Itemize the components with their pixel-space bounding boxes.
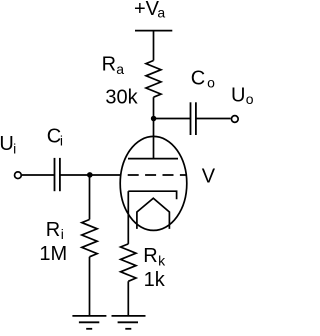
ground (cathode side) bbox=[112, 316, 146, 329]
svg-text:R: R bbox=[102, 54, 116, 76]
ground (input side) bbox=[72, 316, 106, 329]
node anode junction bbox=[151, 116, 157, 122]
wire Co to output terminal bbox=[196, 118, 231, 120]
label Ra bbox=[102, 54, 125, 77]
svg-text:o: o bbox=[207, 74, 215, 90]
grid (dashed) bbox=[128, 174, 187, 176]
svg-text:C: C bbox=[191, 67, 205, 89]
svg-text:o: o bbox=[246, 91, 253, 107]
svg-text:i: i bbox=[60, 133, 63, 149]
svg-text:k: k bbox=[158, 252, 166, 268]
wire supply bar to Ra bbox=[153, 31, 155, 61]
wire node to tube grid bbox=[90, 174, 122, 176]
cathode lead to Rk bbox=[127, 191, 129, 244]
svg-text:V: V bbox=[202, 165, 216, 187]
resistor Rk bbox=[121, 244, 136, 281]
label Ui bbox=[0, 133, 16, 156]
triode envelope V bbox=[120, 136, 187, 230]
wire node down to Ri bbox=[89, 175, 91, 220]
label Ci bbox=[47, 126, 63, 149]
svg-text:1k: 1k bbox=[144, 269, 166, 291]
svg-text:30k: 30k bbox=[105, 86, 138, 108]
label Uo bbox=[231, 84, 254, 107]
svg-text:i: i bbox=[13, 140, 16, 156]
node grid junction bbox=[87, 172, 93, 178]
cathode bbox=[128, 191, 176, 199]
svg-text:U: U bbox=[231, 84, 245, 106]
anode plate bbox=[128, 158, 178, 160]
input terminal Ui bbox=[15, 172, 22, 179]
wire node to Co bbox=[154, 118, 191, 120]
svg-text:R: R bbox=[143, 245, 157, 267]
svg-text:a: a bbox=[116, 61, 124, 77]
wire Ri to ground bbox=[89, 257, 91, 316]
label Ri bbox=[46, 219, 64, 242]
wire Ra to anode (through node) bbox=[153, 97, 155, 158]
resistor Ri bbox=[82, 220, 97, 257]
svg-text:a: a bbox=[157, 5, 165, 21]
heater filament bbox=[137, 198, 170, 229]
capacitor Ci bbox=[55, 158, 60, 191]
svg-text:+V: +V bbox=[134, 0, 160, 20]
capacitor Co bbox=[191, 102, 196, 135]
svg-text:i: i bbox=[61, 226, 64, 242]
resistor Ra bbox=[146, 61, 161, 98]
svg-text:1M: 1M bbox=[39, 243, 67, 265]
wire Ci to grid node bbox=[60, 174, 90, 176]
label Co bbox=[191, 67, 215, 90]
output terminal Uo bbox=[231, 116, 238, 123]
wire Rk to ground bbox=[127, 281, 129, 315]
wire input terminal to Ci bbox=[22, 174, 55, 176]
supply rail bar bbox=[135, 30, 172, 32]
svg-text:R: R bbox=[46, 219, 60, 241]
svg-text:U: U bbox=[0, 133, 14, 155]
supply +Va label bbox=[134, 0, 165, 21]
label Rk bbox=[143, 245, 166, 268]
